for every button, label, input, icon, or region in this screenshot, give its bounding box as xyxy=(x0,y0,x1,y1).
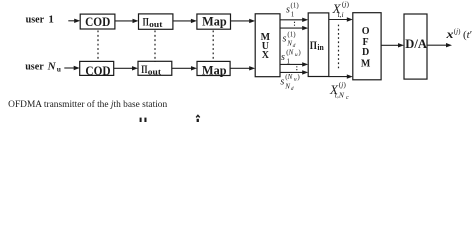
svg-text:1: 1 xyxy=(291,10,295,18)
svg-text:(t′: (t′ xyxy=(463,29,472,41)
svg-text:t,i: t,i xyxy=(338,10,344,19)
caption text xyxy=(8,99,167,110)
svg-text:(N: (N xyxy=(286,49,293,57)
svg-text:1: 1 xyxy=(48,13,54,25)
svg-text:s: s xyxy=(283,34,287,45)
wire MUX to PIin sNd(Nu) xyxy=(280,70,308,74)
wire COD2 to PIout2 xyxy=(114,66,138,70)
dots between s1 and sNd arrows xyxy=(294,22,296,27)
signal label Xti(j) xyxy=(332,0,350,19)
svg-text:D/A: D/A xyxy=(405,37,427,51)
wire OFDM to D/A xyxy=(381,43,404,47)
svg-text:X: X xyxy=(262,50,270,61)
svg-text:D: D xyxy=(362,47,369,58)
svg-text:M: M xyxy=(361,59,371,70)
wire MUX to PIin s1(Nu) xyxy=(280,62,308,66)
svg-text:(j): (j) xyxy=(339,80,347,89)
wire PIout1 to Map1 xyxy=(173,19,197,23)
output wire from D/A xyxy=(427,43,452,47)
svg-text:(j): (j) xyxy=(454,28,461,36)
svg-text:COD: COD xyxy=(85,63,110,78)
block Pi_out row1 xyxy=(139,14,173,29)
cutoff glyph Pi-top from next figure xyxy=(140,118,147,122)
block OFDM xyxy=(353,13,381,80)
svg-text:COD: COD xyxy=(85,14,110,29)
svg-text:out: out xyxy=(149,19,162,29)
svg-text:Map: Map xyxy=(202,14,227,29)
svg-text:s: s xyxy=(281,52,285,63)
svg-text:out: out xyxy=(148,66,161,76)
svg-text:c: c xyxy=(346,95,349,101)
block COD row2 xyxy=(80,61,114,78)
wire MUX to PIin s1(1) xyxy=(280,18,308,22)
svg-text:u: u xyxy=(57,64,61,73)
signal label XtNc(j) xyxy=(329,80,349,101)
svg-text:(1): (1) xyxy=(291,1,300,9)
signal label sNd(Nu) xyxy=(280,73,300,92)
wire user1 to COD1 xyxy=(68,19,80,23)
wire PIout2 to Map2 xyxy=(172,66,197,70)
block COD row1 xyxy=(80,14,115,29)
dots between s1 and sNd arrows bottom xyxy=(296,66,298,70)
svg-text:O: O xyxy=(362,26,370,37)
dotted ellipsis under Map column xyxy=(212,31,214,63)
wire MUX to PIin sNd(1) xyxy=(280,26,308,30)
output label x(j)(t') xyxy=(445,27,472,41)
svg-text:OFDMA transmitter of the jth b: OFDMA transmitter of the jth base statio… xyxy=(8,99,167,110)
block MUX xyxy=(255,14,280,77)
wire PIin to OFDM top xyxy=(329,17,353,21)
dotted ellipsis between PIin and OFDM xyxy=(338,25,340,70)
svg-text:(N: (N xyxy=(285,73,292,81)
svg-text:t,N: t,N xyxy=(335,91,345,100)
block Pi_out row2 xyxy=(138,61,172,76)
svg-text:N: N xyxy=(284,83,290,91)
wire Map2 to MUX xyxy=(230,66,255,70)
svg-text:s: s xyxy=(286,5,290,16)
svg-text:(j): (j) xyxy=(342,0,350,8)
block Map row2 xyxy=(197,61,230,77)
node label "user Nu" xyxy=(25,60,61,73)
dotted ellipsis under COD column xyxy=(97,31,99,63)
svg-text:N: N xyxy=(47,60,57,72)
svg-text:s: s xyxy=(280,77,284,88)
wire Map1 to MUX xyxy=(231,19,256,23)
svg-text:(1): (1) xyxy=(287,30,296,38)
svg-text:user: user xyxy=(26,13,45,25)
wire PIin to OFDM bottom xyxy=(329,74,353,78)
svg-text:x: x xyxy=(445,27,453,41)
block Map row1 xyxy=(197,14,231,30)
signal label s1(1) xyxy=(286,1,299,18)
wire user2 to COD2 xyxy=(64,66,79,70)
svg-text:Π: Π xyxy=(310,38,318,52)
svg-text:d: d xyxy=(291,86,294,92)
node label "user 1" xyxy=(26,13,54,25)
svg-text:Map: Map xyxy=(202,63,227,78)
dotted ellipsis under PIout column xyxy=(154,31,156,63)
cutoff glyph j-hat from next figure xyxy=(196,114,201,122)
svg-text:N: N xyxy=(286,39,292,47)
signal label s1(Nu) xyxy=(281,49,301,66)
signal label sNd(1) xyxy=(283,30,297,48)
block Pi_in xyxy=(308,13,329,77)
svg-text:user: user xyxy=(25,60,44,72)
wire COD1 to PIout1 xyxy=(115,19,139,23)
block D/A xyxy=(404,14,427,79)
svg-text:in: in xyxy=(317,42,324,52)
